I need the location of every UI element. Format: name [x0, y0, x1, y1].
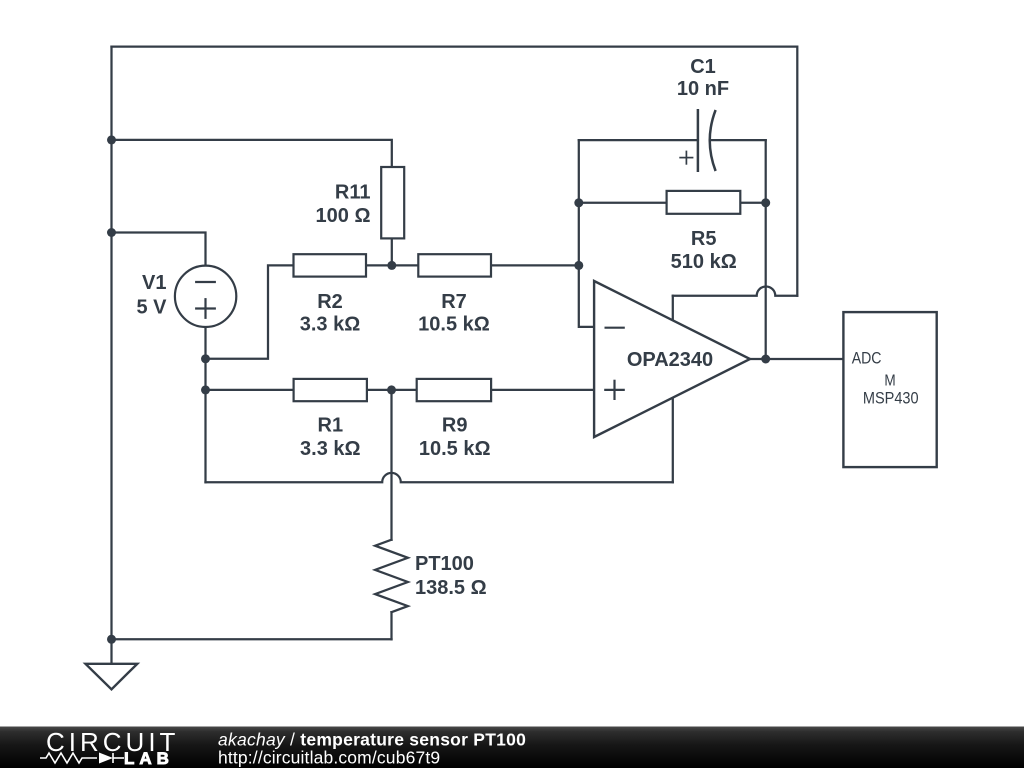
svg-text:10 nF: 10 nF	[677, 78, 729, 100]
svg-text:R1: R1	[318, 415, 344, 437]
svg-text:PT100: PT100	[415, 553, 474, 575]
svg-text:ADC: ADC	[852, 348, 882, 367]
svg-text:OPA2340: OPA2340	[627, 349, 713, 371]
svg-text:R2: R2	[317, 291, 343, 313]
svg-text:510 kΩ: 510 kΩ	[671, 251, 737, 273]
svg-text:R7: R7	[441, 291, 467, 313]
svg-text:V1: V1	[142, 272, 166, 294]
svg-text:10.5 kΩ: 10.5 kΩ	[419, 438, 491, 460]
svg-text:3.3 kΩ: 3.3 kΩ	[300, 314, 361, 336]
svg-text:5 V: 5 V	[136, 297, 167, 319]
svg-text:C1: C1	[690, 56, 716, 78]
svg-text:R11: R11	[335, 182, 371, 204]
svg-text:M: M	[884, 372, 895, 389]
svg-text:LAB: LAB	[124, 749, 174, 768]
svg-text:R5: R5	[691, 228, 717, 250]
svg-text:100 Ω: 100 Ω	[316, 205, 371, 227]
svg-text:10.5 kΩ: 10.5 kΩ	[418, 314, 490, 336]
svg-text:MSP430: MSP430	[863, 390, 919, 408]
svg-text:R9: R9	[442, 415, 468, 437]
svg-text:akachay / temperature sensor P: akachay / temperature sensor PT100	[218, 729, 526, 749]
svg-text:138.5 Ω: 138.5 Ω	[415, 577, 487, 599]
svg-text:3.3 kΩ: 3.3 kΩ	[300, 438, 361, 460]
svg-text:http://circuitlab.com/cub67t9: http://circuitlab.com/cub67t9	[218, 748, 440, 768]
